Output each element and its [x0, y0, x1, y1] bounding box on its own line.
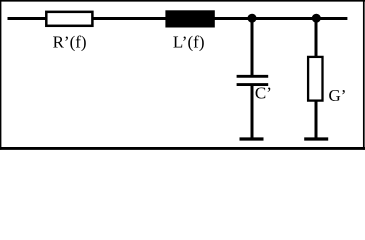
wire: capacitor branch upper — [251, 19, 254, 76]
capacitor C' bottom plate — [237, 83, 269, 86]
wire: G branch lower — [315, 101, 318, 139]
svg-text:R’(f): R’(f) — [53, 33, 87, 52]
wire: G branch upper — [315, 19, 318, 58]
node: junction of G branch — [312, 14, 321, 23]
resistor R'(f) — [46, 12, 92, 26]
terminal bar below G' — [304, 137, 328, 140]
terminal bar below capacitor — [240, 137, 264, 140]
conductance G' box — [308, 57, 322, 101]
svg-text:C’: C’ — [255, 84, 272, 103]
wire: capacitor branch lower — [251, 86, 254, 139]
capacitor C' top plate — [237, 75, 269, 78]
node: junction of capacitor branch — [248, 14, 257, 23]
inductor L'(f) — [165, 10, 214, 27]
svg-text:G’: G’ — [329, 86, 347, 105]
svg-text:L’(f): L’(f) — [173, 33, 205, 52]
wire: top series rail — [8, 17, 348, 20]
